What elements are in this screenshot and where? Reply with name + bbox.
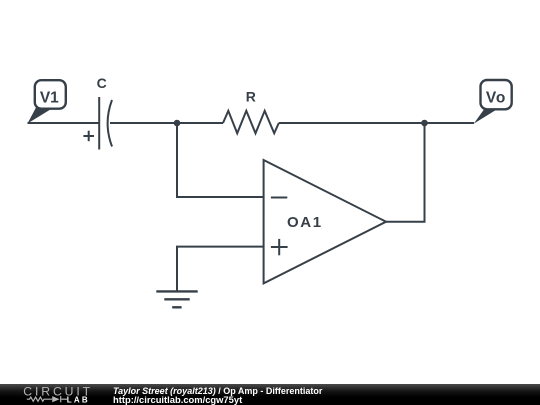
- ground bar 3: [172, 306, 181, 308]
- svg-text:LAB: LAB: [67, 396, 90, 405]
- CircuitLab logo: [0, 384, 100, 405]
- svg-text:C: C: [97, 75, 107, 91]
- capacitor plus polarity mark: [83, 131, 94, 142]
- op-amp minus symbol: [271, 197, 287, 199]
- V1 flag pointer: [28, 108, 53, 124]
- wire op-amp output to node B: [386, 123, 425, 222]
- junction node B: [421, 120, 428, 127]
- svg-text:R: R: [246, 89, 256, 105]
- wire input from V1 tip to capacitor left plate: [28, 122, 100, 124]
- ground bar 2: [164, 298, 189, 300]
- op-amp plus symbol: [271, 239, 288, 255]
- svg-text:Vo: Vo: [486, 90, 506, 107]
- Vo flag box: [481, 80, 512, 109]
- op-amp OA1 triangle: [264, 160, 386, 283]
- capacitor C1 right curved plate: [108, 100, 112, 147]
- footer line 1: [113, 387, 322, 396]
- svg-text:V1: V1: [40, 90, 59, 107]
- footer line 2: [113, 395, 242, 404]
- svg-text:OA1: OA1: [287, 214, 323, 231]
- ground bar 1: [156, 290, 197, 292]
- Vo flag pointer: [474, 108, 498, 124]
- wire junction A down to inverting input: [177, 123, 264, 197]
- wire non-inverting input to ground stem: [177, 247, 264, 292]
- wire resistor to Vo tip: [279, 122, 474, 124]
- V1 flag box: [35, 80, 66, 109]
- capacitor C1 left plate: [98, 97, 100, 150]
- junction node A: [174, 120, 181, 127]
- wire capacitor right plate to resistor: [110, 122, 223, 124]
- resistor R zigzag: [223, 111, 279, 134]
- footer bar: [0, 384, 540, 405]
